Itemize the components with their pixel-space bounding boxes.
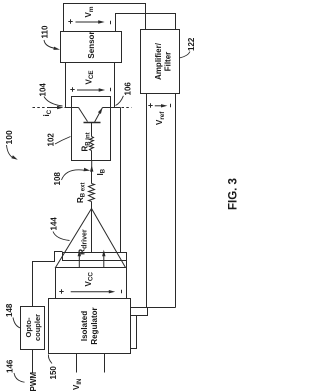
leader 144 (53, 232, 70, 241)
svg-text:100: 100 (4, 130, 14, 144)
emitter return rail (120, 108, 122, 253)
leader 104 (44, 97, 63, 107)
collector wire (65, 107, 79, 109)
svg-text:PWM: PWM (29, 372, 38, 392)
wire emitter to sensor (node 106) (114, 63, 116, 108)
svg-text:Isolated: Isolated (80, 311, 89, 341)
opto-coupler box 148 (21, 307, 45, 350)
Rdriver resistor block (63, 253, 127, 261)
Vref- rail (175, 94, 177, 308)
wire regulator to driver base top (55, 268, 57, 299)
isolated regulator box 150 (49, 299, 131, 354)
minus sign VCE (110, 88, 112, 91)
op-amp driver triangle 144 (56, 209, 126, 268)
minus sign VCC (121, 290, 123, 293)
wire sensor output A to amp/filter (64, 4, 146, 32)
svg-text:146: 146 (6, 359, 15, 373)
Vref arrow (155, 105, 165, 107)
VCE arrow (77, 89, 102, 91)
wire RB ext to apex (91, 202, 93, 209)
svg-text:coupler: coupler (33, 314, 42, 341)
svg-text:Sensor: Sensor (87, 31, 96, 58)
wire opto-coupler to driver input (33, 252, 63, 307)
iC arrow (47, 107, 61, 109)
wire sensor output B to amp/filter (116, 14, 176, 32)
minus sign Vm (110, 21, 112, 24)
transistor region box 102 (72, 97, 111, 161)
resistor RB ext (89, 184, 95, 202)
leader 102 (55, 137, 71, 145)
svg-text:110: 110 (41, 25, 50, 38)
svg-text:Filter: Filter (164, 52, 173, 72)
svg-text:Regulator: Regulator (90, 307, 99, 344)
leader 110 arrow (44, 40, 56, 48)
wire base bar to RB int (91, 123, 93, 137)
resistor RB int (90, 137, 94, 151)
VIN input wire (76, 354, 78, 373)
svg-text:148: 148 (5, 303, 14, 317)
svg-text:150: 150 (49, 366, 58, 380)
svg-text:144: 144 (50, 217, 59, 231)
regulator second input wire (104, 354, 106, 373)
wire regulator to Rdriver block bottom (126, 261, 128, 299)
emitter wire down (103, 107, 121, 109)
svg-text:108: 108 (53, 172, 62, 186)
wire IB to RB ext (91, 170, 93, 184)
wire Rdriver to apex (91, 210, 93, 253)
iC dashed lead (33, 107, 47, 109)
plus sign Vm (68, 19, 72, 23)
transistor emitter lead with arrow (95, 108, 103, 123)
svg-text:102: 102 (47, 133, 56, 147)
transistor collector lead (79, 108, 88, 122)
leader 108 (62, 170, 85, 180)
plus sign Vref (148, 103, 152, 107)
leader 100 arrow (7, 145, 14, 158)
Vref+ rail (146, 94, 148, 308)
wire regulator to connector box (131, 316, 137, 354)
emitter dashed continuation (122, 107, 132, 109)
plus sign VCE (70, 87, 74, 91)
leader 146 (14, 373, 25, 382)
svg-text:106: 106 (124, 82, 133, 96)
leader 122 (180, 52, 190, 58)
driver input arrow lower (103, 252, 105, 267)
rail join at connector (148, 307, 176, 309)
wire collector to sensor (node 104) (65, 63, 67, 108)
VCC arrow (71, 291, 113, 293)
svg-text:FIG. 3: FIG. 3 (227, 178, 239, 210)
driver input arrow upper (78, 252, 80, 267)
wire RB int to box edge (91, 151, 93, 161)
IB current arrow (91, 161, 93, 170)
minus sign Vref (170, 104, 172, 107)
svg-text:122: 122 (187, 37, 196, 51)
transistor base bar (84, 122, 101, 124)
leader 148 (13, 318, 21, 329)
regulator output connector box (131, 308, 148, 316)
PWM input wire (32, 350, 34, 373)
svg-text:Amplifier/: Amplifier/ (154, 42, 163, 80)
sensor box 110 (61, 32, 122, 63)
amplifier/filter box 122 (141, 30, 180, 94)
Vm arrow (76, 21, 102, 23)
leader 106 (116, 96, 124, 106)
plus sign VCC (59, 289, 63, 293)
leader 150 (48, 355, 52, 364)
svg-text:Opto-: Opto- (24, 317, 33, 337)
svg-text:104: 104 (39, 83, 48, 97)
